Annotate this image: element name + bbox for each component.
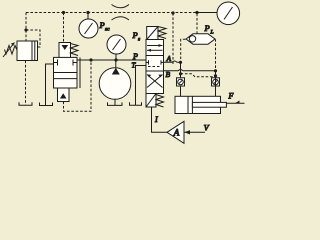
valve box2 closed ports: [146, 61, 149, 63]
amplifier A: [167, 121, 184, 143]
wire shuttle output (dashed): [196, 13, 198, 34]
valve body 4/3 proportional: [146, 40, 164, 94]
compensator valve body: [54, 57, 78, 88]
wire LS drop to compensator top: [63, 13, 65, 43]
cylinder rod: [192, 102, 226, 107]
wire LS pilot line (dashed, top): [26, 12, 197, 14]
wire compensator to tank: [46, 64, 54, 105]
shuttle valve: [186, 34, 215, 44]
compensator pilot box (bottom, up arrow): [58, 88, 70, 102]
wire shuttle left input (dashed): [181, 39, 186, 61]
wire relief vent branch: [26, 30, 40, 47]
svg-text:sc: sc: [105, 27, 110, 33]
cylinder body: [175, 96, 221, 113]
svg-text:A: A: [166, 54, 172, 63]
valve bottom solenoid: [146, 94, 156, 108]
svg-text:P: P: [132, 52, 138, 61]
node tap B pilot: [214, 74, 217, 77]
gauge Psc: [79, 19, 98, 38]
svg-text:I: I: [154, 115, 158, 124]
wire amplifier input: [184, 131, 205, 133]
pump: [99, 68, 131, 100]
node A corner: [179, 61, 182, 64]
node LS-shuttle junction: [195, 11, 198, 14]
tank T4 (valve return): [130, 102, 142, 105]
wire port A: [164, 61, 181, 62]
node LS tap on line B: [171, 11, 174, 14]
wire shuttle right input (dashed): [214, 39, 217, 70]
svg-text:L: L: [210, 30, 214, 36]
wire gauge Psc stub: [87, 13, 89, 20]
compensator bottom box through path: [54, 78, 78, 80]
valve top spring: [158, 27, 166, 39]
wire port B (hops over A pipe): [164, 70, 216, 71]
wire to gauge PL: [197, 12, 217, 14]
compensator top spring: [71, 44, 79, 56]
wire pilot link between taps (dashed): [181, 74, 216, 77]
wire pump suction: [114, 99, 116, 105]
svg-text:P: P: [204, 23, 210, 33]
gauge PL: [217, 2, 240, 25]
svg-text:F: F: [228, 92, 234, 101]
transducer left: [177, 78, 185, 86]
wire compensator pilot from supply (dashed): [64, 60, 92, 111]
transducer right: [212, 78, 220, 86]
svg-text:A: A: [173, 127, 180, 137]
valve box3 crossed arrows: [147, 75, 163, 88]
wire supply line P: [77, 59, 146, 61]
wire LS left drop to relief pilot: [25, 13, 27, 42]
tank T1 (relief drain): [19, 102, 32, 105]
node pump outlet: [114, 58, 117, 61]
break symbol (arcs) on LS line: [112, 5, 130, 8]
tank T2 (compensator): [40, 103, 53, 106]
svg-text:P: P: [132, 30, 138, 40]
svg-text:s: s: [138, 37, 140, 43]
force arrow F: [227, 102, 245, 104]
gauge Ps: [107, 35, 126, 54]
compensator top box closed ports: [54, 62, 58, 64]
svg-text:B: B: [166, 70, 171, 79]
valve box1 parallel arrows: [147, 45, 163, 47]
wire relief drain (dashed): [25, 61, 27, 105]
wire A down pipe: [180, 62, 182, 96]
valve top solenoid: [147, 27, 158, 40]
node B end: [214, 69, 217, 72]
node LS-relief junction: [24, 28, 27, 31]
cylinder piston: [187, 96, 189, 113]
node tap A pilot: [179, 72, 182, 75]
node LS to compensator: [62, 11, 65, 14]
valve bottom spring: [156, 95, 164, 108]
tank T3 (pump): [108, 102, 123, 105]
compensator pilot box (top, down arrow): [59, 43, 71, 58]
wire valve T port to tank: [136, 66, 147, 106]
node supply pilot junction: [89, 58, 92, 61]
wire B pipe down: [215, 71, 217, 97]
wire amplifier output to solenoid: [152, 107, 168, 132]
relief valve RV body: [17, 41, 32, 61]
node LS to gauge Psc: [86, 11, 89, 14]
relief valve adjustable spring: [5, 46, 18, 55]
svg-text:P: P: [99, 20, 105, 30]
wire LS tap dashed drop: [172, 13, 174, 65]
